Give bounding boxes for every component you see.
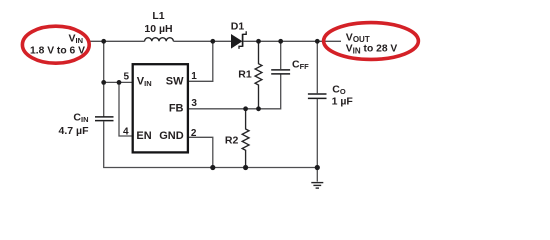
inductor L1 — [145, 38, 174, 42]
wire CIN to bottom rail — [103, 121, 105, 167]
wire top rail right segment — [243, 40, 341, 42]
junction ground rail / R2 bottom — [243, 165, 248, 170]
resistor R1 — [255, 41, 262, 109]
op IC box U1 — [133, 64, 188, 152]
wire top rail mid segment — [173, 40, 231, 42]
junction FB net / R2 top — [243, 106, 248, 111]
wire CFF top lead — [280, 41, 282, 69]
junction VOUT rail / CFF branch — [278, 39, 283, 44]
svg-text:L1: L1 — [152, 10, 164, 22]
svg-text:FB: FB — [169, 102, 184, 114]
svg-text:10 µH: 10 µH — [144, 23, 172, 35]
svg-text:4.7 µF: 4.7 µF — [59, 125, 90, 137]
svg-text:GND: GND — [159, 130, 184, 142]
svg-text:1.8 V to 6 V: 1.8 V to 6 V — [30, 46, 85, 57]
red ellipse VOUT callout — [324, 23, 419, 60]
svg-text:R2: R2 — [225, 135, 239, 147]
svg-text:R1: R1 — [238, 69, 252, 81]
svg-text:VIN to 28 V: VIN to 28 V — [346, 44, 398, 56]
wire pin5 VIN — [104, 81, 133, 83]
junction VIN rail / CIN branch — [101, 39, 106, 44]
red ellipse VIN callout — [22, 26, 89, 63]
svg-text:SW: SW — [166, 75, 184, 87]
svg-text:4: 4 — [123, 127, 129, 138]
junction ground rail / GND pin — [210, 165, 215, 170]
junction ground rail / CO bottom — [315, 165, 320, 170]
svg-text:5: 5 — [123, 72, 129, 83]
svg-text:D1: D1 — [231, 21, 245, 33]
svg-text:2: 2 — [191, 128, 197, 139]
junction VOUT rail / CO branch — [315, 39, 320, 44]
bottom rail — [103, 167, 317, 169]
ground — [311, 168, 323, 189]
wire pin1 SW — [189, 41, 213, 81]
wire pin4 EN branch — [119, 82, 133, 136]
wire pin3 FB net — [189, 74, 281, 109]
wire pin2 GND — [189, 137, 213, 167]
wire CO top lead — [316, 41, 318, 93]
diode D1 — [231, 31, 246, 49]
capacitor CIN — [95, 117, 114, 121]
svg-text:1: 1 — [191, 71, 197, 82]
wire CIN branch vertical — [103, 41, 105, 116]
svg-text:3: 3 — [191, 98, 197, 109]
junction SW node on rail — [210, 39, 215, 44]
capacitor CFF — [271, 70, 290, 74]
wire CO bottom lead — [316, 99, 318, 168]
svg-text:EN: EN — [136, 130, 151, 142]
junction pin5 wire / CIN branch — [101, 80, 106, 85]
junction pin5 wire / EN branch — [117, 80, 122, 85]
capacitor CO — [308, 94, 327, 98]
resistor R2 — [242, 109, 249, 168]
wire top rail left segment — [89, 40, 145, 42]
junction VOUT rail / R1 branch — [256, 39, 261, 44]
junction FB net / R1 bottom — [256, 106, 261, 111]
svg-text:1 µF: 1 µF — [332, 96, 354, 108]
